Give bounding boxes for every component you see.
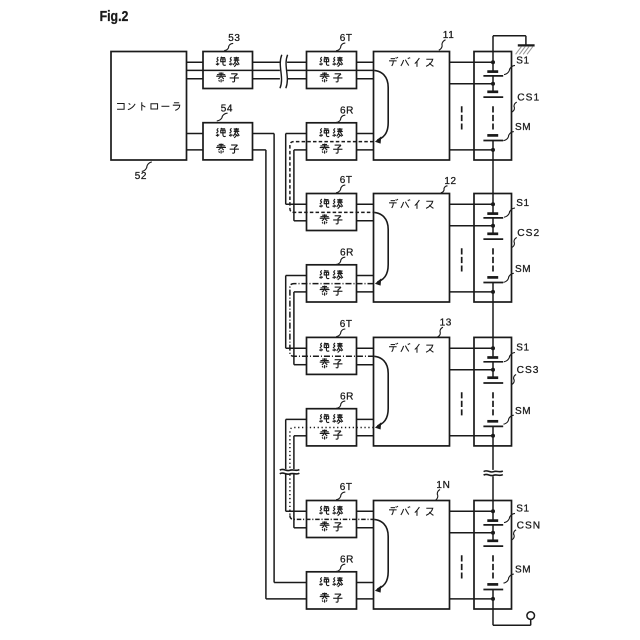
svg-text:S1: S1	[516, 504, 529, 515]
svg-text:11: 11	[443, 30, 455, 41]
svg-text:54: 54	[221, 103, 233, 114]
svg-text:CS2: CS2	[517, 228, 540, 239]
svg-text:6T: 6T	[340, 319, 353, 330]
svg-text:6R: 6R	[340, 554, 354, 565]
svg-text:S1: S1	[516, 198, 529, 209]
svg-text:13: 13	[440, 317, 452, 328]
svg-text:Fig.2: Fig.2	[100, 8, 129, 25]
svg-text:S1: S1	[516, 56, 529, 67]
svg-text:S1: S1	[516, 343, 529, 354]
svg-text:12: 12	[444, 176, 456, 187]
svg-text:SM: SM	[515, 122, 531, 133]
svg-text:CS3: CS3	[517, 365, 540, 376]
svg-text:6T: 6T	[340, 33, 353, 44]
svg-text:52: 52	[135, 171, 147, 182]
svg-text:6R: 6R	[340, 105, 354, 116]
svg-text:6T: 6T	[340, 175, 353, 186]
svg-text:CS1: CS1	[517, 93, 540, 104]
svg-text:1N: 1N	[436, 480, 450, 491]
svg-text:SM: SM	[515, 565, 531, 576]
svg-text:CSN: CSN	[517, 520, 542, 531]
svg-text:SM: SM	[515, 406, 531, 417]
svg-text:6R: 6R	[340, 391, 354, 402]
svg-text:53: 53	[228, 33, 240, 44]
svg-text:SM: SM	[515, 264, 531, 275]
svg-text:6T: 6T	[340, 482, 353, 493]
svg-text:6R: 6R	[340, 247, 354, 258]
